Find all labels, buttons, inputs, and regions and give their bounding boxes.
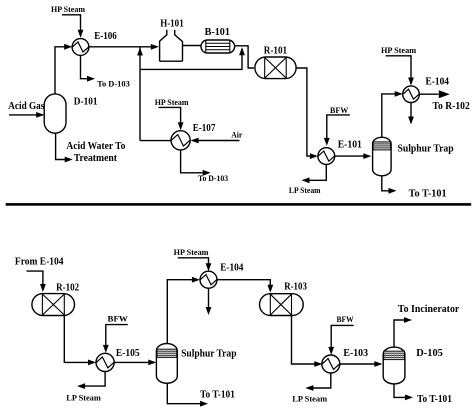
svg-text:LP Steam: LP Steam: [289, 186, 321, 195]
svg-text:To D-103: To D-103: [97, 79, 130, 88]
svg-text:From E-104: From E-104: [15, 256, 64, 267]
svg-text:BFW: BFW: [337, 315, 354, 324]
svg-text:HP Steam: HP Steam: [155, 98, 189, 107]
svg-text:LP Steam: LP Steam: [66, 394, 101, 403]
svg-text:To T-101: To T-101: [417, 394, 452, 405]
svg-text:To R-102: To R-102: [433, 101, 470, 112]
svg-text:H-101: H-101: [160, 19, 184, 30]
svg-text:R-101: R-101: [264, 45, 287, 56]
svg-text:HP Steam: HP Steam: [174, 248, 209, 257]
svg-text:To Incinerator: To Incinerator: [398, 304, 460, 315]
svg-text:HP Steam: HP Steam: [381, 46, 416, 55]
svg-text:To T-101: To T-101: [200, 389, 235, 400]
svg-text:E-107: E-107: [193, 123, 216, 134]
svg-text:Sulphur Trap: Sulphur Trap: [398, 143, 455, 154]
svg-text:E-101: E-101: [338, 140, 362, 151]
svg-text:R-103: R-103: [284, 281, 307, 292]
svg-text:B-101: B-101: [205, 27, 230, 38]
svg-text:E-106: E-106: [94, 31, 117, 42]
svg-text:Treatment: Treatment: [74, 153, 118, 164]
svg-text:E-105: E-105: [116, 348, 140, 359]
svg-text:BFW: BFW: [108, 314, 128, 323]
svg-text:To T-101: To T-101: [409, 188, 447, 199]
svg-text:BFW: BFW: [330, 106, 348, 115]
svg-text:To D-103: To D-103: [198, 174, 228, 183]
svg-text:HP Steam: HP Steam: [51, 5, 85, 14]
svg-text:E-104: E-104: [426, 77, 450, 88]
svg-text:D-101: D-101: [74, 97, 98, 108]
svg-text:E-103: E-103: [343, 348, 368, 359]
svg-text:Acid Gas: Acid Gas: [8, 101, 44, 112]
svg-text:Sulphur Trap: Sulphur Trap: [181, 348, 237, 359]
svg-text:LP Steam: LP Steam: [292, 394, 327, 403]
svg-text:D-105: D-105: [416, 348, 443, 359]
svg-text:Acid Water To: Acid Water To: [66, 141, 125, 152]
svg-text:R-102: R-102: [56, 282, 79, 293]
svg-text:E-104: E-104: [220, 263, 243, 274]
svg-text:Air: Air: [231, 131, 243, 140]
